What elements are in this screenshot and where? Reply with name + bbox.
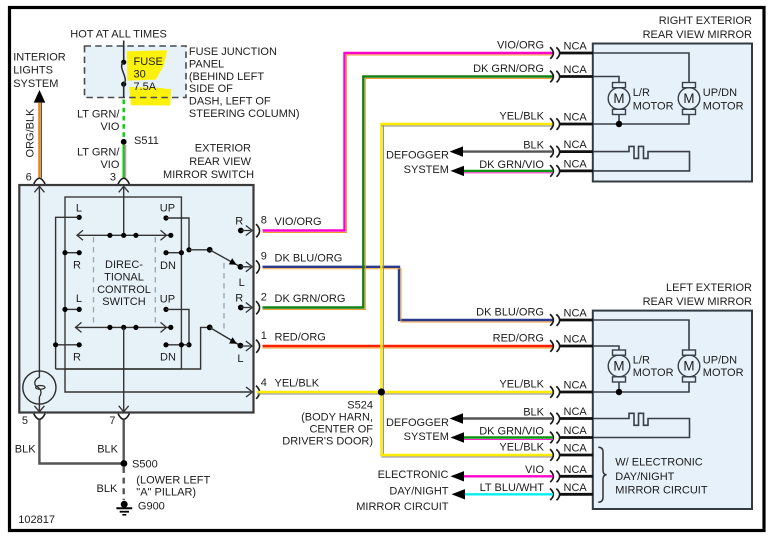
svg-text:REAR VIEW MIRROR: REAR VIEW MIRROR <box>643 296 752 308</box>
svg-text:4: 4 <box>261 377 267 389</box>
dashed linkage lines in contact frame <box>93 237 95 326</box>
svg-text:VIO/ORG: VIO/ORG <box>497 40 544 52</box>
wire UP2 to DN2 bus <box>166 309 189 344</box>
svg-text:DEFOGGER: DEFOGGER <box>386 417 449 429</box>
svg-text:L: L <box>239 277 245 289</box>
svg-text:SYSTEM: SYSTEM <box>404 431 449 443</box>
svg-text:YEL/BLK: YEL/BLK <box>275 377 320 389</box>
svg-text:M: M <box>613 359 624 374</box>
svg-text:NCA: NCA <box>564 158 588 170</box>
NCA connector YEL/BLK right mirror <box>550 118 553 130</box>
wire RED/ORG pin 1 to left mirror <box>263 345 554 347</box>
wire YEL/BLK pin 4 trunk <box>257 391 553 393</box>
illumination bulb <box>23 371 56 404</box>
right mirror interior wire DK GRN/ORG to l/r motor <box>593 77 619 83</box>
svg-text:YEL/BLK: YEL/BLK <box>499 379 544 391</box>
svg-text:102817: 102817 <box>18 514 55 526</box>
wire BLK pin 5 to S500 <box>39 420 121 464</box>
wire DK BLU/ORG pin 9 to left mirror <box>263 267 554 320</box>
wire BLK pin 7 to S500 <box>122 420 124 464</box>
left mirror interior wire RED/ORG to l/r motor <box>593 346 619 350</box>
wire pin6 column inside switch <box>38 186 40 378</box>
svg-text:MOTOR: MOTOR <box>633 367 674 379</box>
svg-text:REAR VIEW MIRROR: REAR VIEW MIRROR <box>643 29 752 41</box>
svg-text:SYSTEM: SYSTEM <box>404 164 449 176</box>
svg-text:DIREC-: DIREC- <box>105 259 143 271</box>
svg-text:NCA: NCA <box>564 334 588 346</box>
svg-text:NCA: NCA <box>564 308 588 320</box>
wire VIO/ORG pin 8 to right mirror <box>263 53 554 231</box>
wire VIO electronic mirror <box>462 475 553 477</box>
wire pin3 column to wiper row <box>123 186 125 235</box>
wire DK GRN/ORG pin 2 to right mirror <box>263 77 554 308</box>
mechanical link arms (dashed) <box>223 263 225 333</box>
svg-text:(LOWER LEFT: (LOWER LEFT <box>136 475 210 487</box>
svg-text:"A" PILLAR): "A" PILLAR) <box>136 487 196 499</box>
svg-text:RED/ORG: RED/ORG <box>275 332 326 344</box>
L/R motor left mirror <box>613 350 626 355</box>
svg-text:L: L <box>76 203 82 215</box>
svg-text:(BODY HARN,: (BODY HARN, <box>301 412 373 424</box>
svg-text:FUSE JUNCTION: FUSE JUNCTION <box>189 46 277 58</box>
svg-text:HOT AT ALL TIMES: HOT AT ALL TIMES <box>70 29 167 41</box>
svg-text:L/R: L/R <box>633 355 650 367</box>
splice S500 <box>121 460 128 467</box>
NCA connector DK GRN/ORG right mirror <box>550 71 553 83</box>
svg-text:LIGHTS: LIGHTS <box>13 65 53 77</box>
pin 3 connector <box>118 178 129 184</box>
svg-text:30: 30 <box>134 68 146 80</box>
svg-text:7: 7 <box>109 415 115 427</box>
svg-text:NCA: NCA <box>564 464 588 476</box>
svg-text:DASH, LEFT OF: DASH, LEFT OF <box>189 96 271 108</box>
NCA connector YEL/BLK lower left mirror <box>550 449 553 461</box>
UP/DN motor right mirror <box>683 83 696 88</box>
fuse junction panel box (dashed) <box>85 46 187 98</box>
svg-text:CENTER OF: CENTER OF <box>309 424 373 436</box>
NCA connector DK GRN/VIO left mirror <box>550 432 553 444</box>
svg-text:W/ ELECTRONIC: W/ ELECTRONIC <box>615 456 702 468</box>
switch arm 2 (pin 1) <box>207 325 213 331</box>
svg-text:DK GRN/ORG: DK GRN/ORG <box>473 63 544 75</box>
junction dot common right mirror <box>616 121 622 127</box>
svg-text:DK GRN/VIO: DK GRN/VIO <box>479 159 544 171</box>
svg-text:L: L <box>237 353 243 365</box>
arrow to defogger system left (BLK) <box>450 413 464 423</box>
fuse 30 element <box>121 60 126 65</box>
svg-text:LT GRN/: LT GRN/ <box>77 109 120 121</box>
svg-text:DN: DN <box>160 352 176 364</box>
svg-text:UP: UP <box>160 294 175 306</box>
pin 7 connector <box>118 414 129 420</box>
svg-text:6: 6 <box>26 172 32 184</box>
right mirror common wire YEL/BLK <box>593 115 689 125</box>
wire bulb to pin 5 <box>38 397 40 412</box>
svg-text:LT BLU/WHT: LT BLU/WHT <box>480 482 545 494</box>
svg-text:7.5A: 7.5A <box>134 81 157 93</box>
svg-text:R: R <box>73 352 81 364</box>
wire YEL/BLK branch to left mirror lower <box>381 454 553 455</box>
svg-text:R: R <box>235 293 243 305</box>
svg-text:R: R <box>73 260 81 272</box>
svg-text:(BEHIND LEFT: (BEHIND LEFT <box>189 71 264 83</box>
wire BLK S500 to G900 (dashed) <box>122 467 124 500</box>
svg-text:8: 8 <box>261 215 267 227</box>
svg-text:NCA: NCA <box>564 482 588 494</box>
svg-text:SYSTEM: SYSTEM <box>13 78 58 90</box>
pin 4 connector <box>256 386 260 399</box>
ground G900 <box>121 501 128 508</box>
wire LT GRN/VIO S511 to pin 3 <box>122 145 124 178</box>
svg-text:DEFOGGER: DEFOGGER <box>386 150 449 162</box>
svg-text:NCA: NCA <box>564 425 588 437</box>
svg-text:3: 3 <box>110 172 116 184</box>
svg-text:NCA: NCA <box>564 443 588 455</box>
NCA connector RED/ORG left mirror <box>550 340 553 352</box>
svg-text:MIRROR CIRCUIT: MIRROR CIRCUIT <box>356 501 449 513</box>
contact pair DN lower-right <box>166 344 189 346</box>
wire LT BLU/WHT electronic mirror <box>463 493 553 495</box>
svg-text:UP/DN: UP/DN <box>703 355 737 367</box>
lower wiper row <box>75 326 171 328</box>
svg-text:DK BLU/ORG: DK BLU/ORG <box>476 307 544 319</box>
pin 1 connector <box>256 340 260 353</box>
svg-text:BLK: BLK <box>15 444 36 456</box>
svg-text:NCA: NCA <box>564 41 588 53</box>
svg-text:MOTOR: MOTOR <box>703 367 744 379</box>
arrow to electronic day/night (VIO) <box>451 471 465 481</box>
left mirror common wire YEL/BLK <box>593 382 689 392</box>
svg-text:VIO: VIO <box>100 121 119 133</box>
svg-text:DRIVER'S DOOR): DRIVER'S DOOR) <box>282 436 373 448</box>
UP/DN motor left mirror <box>683 350 696 355</box>
svg-text:2: 2 <box>261 292 267 304</box>
defogger grid element right mirror <box>593 146 690 171</box>
pin 6 connector <box>34 178 45 184</box>
svg-text:LT GRN/: LT GRN/ <box>77 147 120 159</box>
NCA connector DK BLU/ORG left mirror <box>550 314 553 326</box>
svg-text:DN: DN <box>160 260 176 272</box>
svg-text:NCA: NCA <box>564 139 588 151</box>
svg-text:VIO: VIO <box>100 159 119 171</box>
wire from hot feed into fuse <box>123 41 125 63</box>
svg-text:INTERIOR: INTERIOR <box>13 51 66 63</box>
wire lower wiper to pin 7 <box>123 327 125 412</box>
wire UP to pivot bus <box>166 218 189 250</box>
contact pair DN upper-right <box>166 252 181 254</box>
svg-text:VIO: VIO <box>525 464 544 476</box>
svg-text:DK BLU/ORG: DK BLU/ORG <box>275 252 343 264</box>
arrow to interior lights system <box>34 90 46 103</box>
contact pair R upper-left <box>65 252 79 254</box>
left mirror interior wire DK BLU/ORG to up/dn motor <box>593 320 689 350</box>
splice S524 <box>378 388 385 395</box>
svg-text:TIONAL: TIONAL <box>104 271 144 283</box>
svg-text:FUSE: FUSE <box>134 56 163 68</box>
pin 9 connector <box>256 260 260 273</box>
svg-text:M: M <box>613 91 624 106</box>
svg-text:YEL/BLK: YEL/BLK <box>499 442 544 454</box>
right mirror box <box>593 44 752 182</box>
svg-text:VIO/ORG: VIO/ORG <box>275 216 322 228</box>
svg-text:NCA: NCA <box>564 112 588 124</box>
brace w/ electronic day/night mirror circuit <box>598 447 606 502</box>
wire YEL/BLK branch to right mirror <box>381 124 553 125</box>
svg-text:NCA: NCA <box>564 380 588 392</box>
wire ORG/BLK pin6 to interior lights <box>38 103 40 178</box>
svg-text:DK GRN/VIO: DK GRN/VIO <box>479 426 544 438</box>
wire LT GRN/VIO fuse to S511 (dashed) <box>122 100 124 140</box>
arrow to electronic day/night (LT BLU/WHT) <box>452 489 466 499</box>
splice S511 <box>121 139 127 145</box>
svg-text:NCA: NCA <box>564 64 588 76</box>
left mirror box <box>593 311 752 509</box>
svg-text:M: M <box>683 91 694 106</box>
svg-text:RIGHT EXTERIOR: RIGHT EXTERIOR <box>659 15 752 27</box>
svg-text:1: 1 <box>261 330 267 342</box>
wire pin4 feed from contact frame <box>65 369 252 397</box>
svg-text:EXTERIOR: EXTERIOR <box>195 143 251 155</box>
svg-text:UP/DN: UP/DN <box>703 87 737 99</box>
junction dot common left mirror <box>616 389 622 395</box>
arrow to defogger system (DK GRN/VIO) <box>451 166 465 176</box>
svg-text:MOTOR: MOTOR <box>703 101 744 113</box>
exterior rear view mirror switch box <box>19 185 253 413</box>
L/R motor right mirror <box>613 83 626 88</box>
NCA connector BLK left mirror <box>550 413 553 425</box>
svg-text:9: 9 <box>261 250 267 262</box>
svg-text:UP: UP <box>160 203 175 215</box>
upper wiper row <box>77 234 171 236</box>
svg-text:MOTOR: MOTOR <box>633 101 674 113</box>
right mirror interior wire VIO/ORG to up/dn motor <box>593 53 689 83</box>
svg-text:DAY/NIGHT: DAY/NIGHT <box>389 486 448 498</box>
svg-text:S524: S524 <box>347 400 373 412</box>
NCA connector DK GRN/VIO right mirror <box>550 165 553 177</box>
svg-text:DAY/NIGHT: DAY/NIGHT <box>615 471 674 483</box>
bottom feed rail to arm 2 <box>56 327 210 369</box>
svg-text:MIRROR SWITCH: MIRROR SWITCH <box>163 169 254 181</box>
svg-text:S500: S500 <box>132 459 158 471</box>
wire DK GRN/VIO defogger left mirror <box>463 436 553 438</box>
wire DK GRN/VIO defogger right mirror <box>463 170 553 172</box>
pin 5 connector <box>34 414 45 420</box>
NCA connector VIO/ORG right mirror <box>550 47 553 59</box>
svg-text:BLK: BLK <box>97 444 118 456</box>
svg-text:YEL/BLK: YEL/BLK <box>499 111 544 123</box>
svg-text:S511: S511 <box>134 135 159 147</box>
svg-text:L/R: L/R <box>633 87 650 99</box>
NCA connector YEL/BLK left mirror <box>550 386 553 398</box>
svg-text:RED/ORG: RED/ORG <box>493 333 544 345</box>
wire YEL/BLK riser at S524 <box>380 124 382 455</box>
arrow to defogger system (BLK) <box>450 146 464 156</box>
svg-text:NCA: NCA <box>564 406 588 418</box>
svg-text:BLK: BLK <box>97 483 118 495</box>
svg-text:ELECTRONIC: ELECTRONIC <box>378 469 449 481</box>
svg-text:M: M <box>683 359 694 374</box>
svg-text:MIRROR CIRCUIT: MIRROR CIRCUIT <box>615 485 708 497</box>
svg-text:BLK: BLK <box>523 407 544 419</box>
wire BLK defogger right mirror <box>461 150 553 152</box>
NCA connector LT BLU/WHT left mirror <box>550 489 553 501</box>
svg-text:G900: G900 <box>138 501 165 513</box>
wire BLK defogger left mirror <box>461 417 553 419</box>
svg-text:LEFT EXTERIOR: LEFT EXTERIOR <box>666 282 752 294</box>
svg-text:STEERING COLUMN): STEERING COLUMN) <box>189 108 300 120</box>
svg-text:CONTROL: CONTROL <box>97 284 151 296</box>
defogger grid element left mirror <box>593 413 690 437</box>
svg-text:R: R <box>235 216 243 228</box>
svg-text:SIDE OF: SIDE OF <box>189 83 233 95</box>
contact pair R lower-left <box>56 344 80 346</box>
svg-text:ORG/BLK: ORG/BLK <box>25 108 37 158</box>
wire L bus <box>56 217 80 369</box>
NCA connector BLK right mirror <box>550 146 553 158</box>
svg-text:REAR VIEW: REAR VIEW <box>189 156 251 168</box>
pin 2 connector <box>256 301 260 314</box>
inner contact frame box <box>65 197 181 369</box>
pin 8 connector <box>256 224 260 237</box>
svg-text:PANEL: PANEL <box>189 58 224 70</box>
svg-text:DK GRN/ORG: DK GRN/ORG <box>275 293 346 305</box>
fuse highlight marker <box>127 50 167 80</box>
svg-text:BLK: BLK <box>523 140 544 152</box>
arrow to defogger system left (DK GRN/VIO) <box>451 432 465 442</box>
svg-text:5: 5 <box>22 415 28 427</box>
switch arm 1 (pin 9) <box>189 249 210 251</box>
NCA connector VIO left mirror <box>550 471 553 483</box>
svg-text:L: L <box>76 293 82 305</box>
svg-text:SWITCH: SWITCH <box>102 296 145 308</box>
